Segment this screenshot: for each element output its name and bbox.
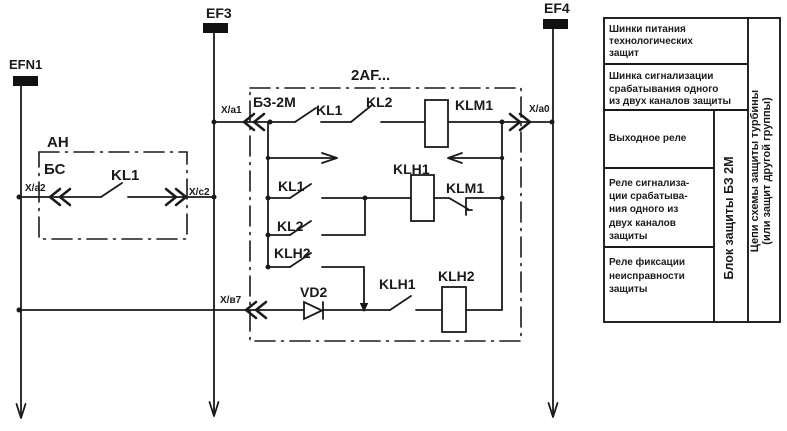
wire rail B right (to EF3) xyxy=(128,196,214,198)
wire row D coil KLH1 to contact KLM1 xyxy=(434,197,449,199)
svg-text:X/a0: X/a0 xyxy=(529,104,550,115)
connector X/a1 chevrons xyxy=(244,114,264,130)
svg-text:AH: AH xyxy=(47,134,69,151)
wire rail C left (EFN1 to diode) xyxy=(19,309,304,311)
junction rail B / EF3 xyxy=(212,195,217,200)
wire rail C diode to contact KLH1 xyxy=(323,309,390,311)
svg-text:KLH2: KLH2 xyxy=(438,268,475,284)
wire rail C KLH1 to coil KLH2 xyxy=(416,309,442,311)
contact KL1 blade (rail B) xyxy=(101,183,122,197)
connector X/a2 chevrons xyxy=(50,189,70,205)
connector X/c2 chevrons xyxy=(166,189,186,205)
wire row D to coil KLH1 xyxy=(322,197,411,199)
wire row D stub from left vertical xyxy=(268,197,290,199)
junction row F / left inner vertical xyxy=(266,265,271,270)
dashed box 2AF xyxy=(250,88,521,341)
junction row D / right inner vertical xyxy=(500,196,505,201)
junction EF3 / rail A xyxy=(212,120,217,125)
contact KLH1 blade (rail C) xyxy=(390,296,411,310)
bus EFN1 black bar xyxy=(13,76,38,86)
wire rail A KL2 to coil KLM1 xyxy=(381,121,425,123)
contact KLH2 blade (row F) xyxy=(290,253,311,267)
contact KL2 blade (row E) xyxy=(290,221,311,235)
wire row E to vertical xyxy=(322,234,365,236)
svg-text:X/a2: X/a2 xyxy=(25,183,46,194)
relay coil KLH1 xyxy=(411,175,434,221)
wire rail B left (EFN1 to contact KL1) xyxy=(19,196,101,198)
svg-text:X/c2: X/c2 xyxy=(189,187,210,198)
junction arrow row / left inner vertical xyxy=(266,156,270,160)
contact KLM1 NC blade (row D) xyxy=(449,198,468,209)
svg-text:EF3: EF3 xyxy=(206,5,232,21)
wire rail A between KL1 and KL2 xyxy=(321,121,351,123)
svg-text:Цепи схемы защиты турбины: Цепи схемы защиты турбины xyxy=(749,90,761,252)
relay coil KLM1 xyxy=(425,100,448,147)
svg-text:KLH2: KLH2 xyxy=(274,245,311,261)
wire EFN1 vertical bus xyxy=(20,86,22,416)
table vertical right column xyxy=(747,18,749,322)
label table row 2 xyxy=(609,71,731,109)
wire vertical KL2 branch up xyxy=(364,198,366,235)
junction EFN1 / rail C xyxy=(17,308,22,313)
svg-text:EFN1: EFN1 xyxy=(9,57,42,72)
table vertical BZ-2M column xyxy=(713,110,715,322)
arrow EFN1 bus bottom xyxy=(17,404,26,418)
wire right inner vertical xyxy=(501,122,503,310)
label table row 5 xyxy=(609,256,685,297)
relay coil KLH2 xyxy=(442,287,466,332)
svg-text:(или защит другой группы): (или защит другой группы) xyxy=(761,97,773,245)
wire rail A left (EF3 to contact KL1) xyxy=(214,121,295,123)
table outer border xyxy=(604,18,780,322)
bus EF4 black bar xyxy=(543,19,568,29)
table divider row2/row3 xyxy=(604,109,748,111)
junction node row D / KL2 branch xyxy=(363,196,368,201)
junction arrow row / right inner vertical xyxy=(500,156,504,160)
connector X/v7 chevrons xyxy=(246,302,266,318)
arrow down into rail C xyxy=(361,304,368,312)
wire row D to right vertical xyxy=(466,197,502,199)
svg-text:БС: БС xyxy=(44,161,66,178)
arrow EF4 bus bottom xyxy=(549,403,558,417)
wire rail C coil KLH2 to right vertical xyxy=(466,309,502,311)
junction rail A / right inner vertical xyxy=(500,120,505,125)
svg-text:KL2: KL2 xyxy=(277,218,304,234)
arrow right-pointing (arrow row left) xyxy=(322,153,337,163)
wire arrow row right xyxy=(450,157,502,159)
svg-text:KL1: KL1 xyxy=(316,102,343,118)
diode VD2 xyxy=(304,302,323,319)
contact KL1 blade (row D) xyxy=(290,184,311,198)
wire row E stub xyxy=(268,234,290,236)
junction rail A / EF4 xyxy=(550,120,555,125)
label table row 4 xyxy=(609,177,689,243)
table divider row1/row2 xyxy=(604,63,748,65)
wire arrow row left xyxy=(268,157,335,159)
junction rail A / left inner vertical xyxy=(268,120,273,125)
dashed box AH/BS xyxy=(39,152,187,239)
svg-text:Блок защиты БЗ 2М: Блок защиты БЗ 2М xyxy=(722,156,736,279)
arrow EF3 bus bottom xyxy=(210,402,219,416)
table divider row4/row5 xyxy=(604,246,714,248)
contact KLM1 NC terminal xyxy=(466,198,472,215)
svg-text:KL2: KL2 xyxy=(366,94,393,110)
wire rail A coil KLM1 to EF4 xyxy=(448,121,553,123)
contact KL2 blade (rail A) xyxy=(351,105,372,122)
wire left inner vertical xyxy=(267,122,269,267)
label table row 1 xyxy=(609,24,693,60)
svg-text:X/a1: X/a1 xyxy=(221,105,242,116)
svg-text:2AF...: 2AF... xyxy=(351,67,390,84)
wire EF3 vertical bus xyxy=(213,33,215,414)
junction row E / left inner vertical xyxy=(266,233,271,238)
svg-text:KLM1: KLM1 xyxy=(446,180,484,196)
bus EF3 black bar xyxy=(203,23,228,33)
svg-text:X/в7: X/в7 xyxy=(220,295,242,306)
label table row 3 xyxy=(609,133,686,145)
wire vertical KLH2 branch down xyxy=(363,267,365,308)
svg-text:KLH1: KLH1 xyxy=(393,161,430,177)
wire EF4 vertical bus xyxy=(552,29,554,415)
svg-text:KLH1: KLH1 xyxy=(379,276,416,292)
table divider row3/row4 xyxy=(604,167,714,169)
svg-text:KL1: KL1 xyxy=(278,178,305,194)
svg-text:KL1: KL1 xyxy=(111,167,139,184)
wire row F stub xyxy=(268,266,290,268)
svg-text:БЗ-2М: БЗ-2М xyxy=(253,94,296,110)
contact KL1 blade (rail A) xyxy=(295,108,316,122)
svg-text:EF4: EF4 xyxy=(544,0,570,16)
connector X/a0 chevrons xyxy=(510,114,530,130)
junction row D / left inner vertical xyxy=(266,196,271,201)
arrow left-pointing (arrow row right) xyxy=(448,153,462,163)
wire row F to vertical xyxy=(322,266,364,268)
svg-text:VD2: VD2 xyxy=(300,284,327,300)
svg-text:KLM1: KLM1 xyxy=(455,97,493,113)
junction EFN1 / rail B xyxy=(17,195,22,200)
